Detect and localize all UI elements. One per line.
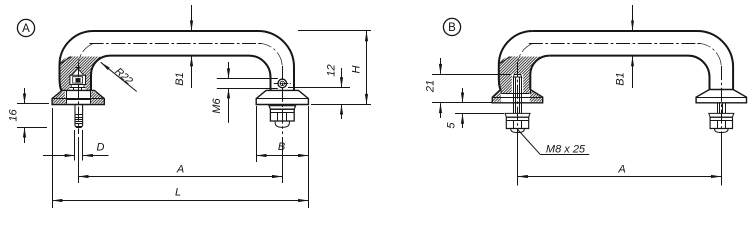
svg-text:A: A	[176, 163, 184, 175]
svg-text:M6: M6	[211, 97, 223, 113]
svg-text:A: A	[617, 163, 625, 175]
washer under right foot	[269, 106, 296, 110]
centerline left foot B	[517, 63, 519, 140]
right foot centerline	[282, 66, 284, 134]
svg-text:B: B	[278, 141, 285, 153]
left foot cone outline	[52, 90, 104, 104]
svg-text:21: 21	[425, 80, 437, 93]
dim 12 right	[288, 87, 350, 89]
stud end dome under right nut	[275, 121, 289, 127]
washer under nut left leg	[71, 85, 84, 88]
stud apex above nut left leg	[72, 69, 84, 76]
dim H right	[298, 30, 371, 32]
svg-text:B1: B1	[615, 72, 627, 85]
hex nut inside left leg	[70, 75, 86, 84]
right foot B cone	[696, 90, 746, 103]
circled letter A label	[17, 19, 34, 36]
left leg cavity white (nut+washer+apex)	[70, 75, 86, 90]
handle A tube outline	[94, 31, 295, 90]
dim B below right foot	[256, 106, 258, 162]
right foot cone outline	[256, 90, 308, 104]
svg-text:12: 12	[326, 64, 338, 76]
label M8 x 25 with leader	[540, 154, 589, 156]
handle B tube outline	[533, 31, 733, 90]
hex nut under right foot	[270, 109, 294, 121]
svg-text:M8 x 25: M8 x 25	[546, 144, 586, 156]
dim A (variant A)	[78, 137, 80, 183]
svg-text:B1: B1	[174, 72, 186, 85]
dim 16 left	[17, 103, 49, 105]
left foot B hatch wings	[492, 90, 501, 102]
left foot inner lines	[66, 90, 68, 103]
svg-text:L: L	[175, 187, 181, 199]
dim B1 arrow line	[191, 5, 193, 30]
circled letter B label	[443, 18, 460, 35]
svg-text:H: H	[351, 65, 363, 73]
svg-text:B: B	[448, 22, 456, 34]
nut stack right foot B	[717, 103, 719, 114]
svg-text:A: A	[22, 23, 30, 35]
left foot B cone	[492, 90, 542, 103]
section hatch left leg B	[499, 56, 547, 93]
dim D below left stud	[74, 130, 76, 161]
dim M6 with extension lines	[217, 78, 278, 80]
threaded stud below left foot	[75, 105, 83, 114]
dim R22 leader	[101, 62, 137, 91]
nut stack left foot B	[513, 103, 515, 114]
svg-text:16: 16	[8, 109, 20, 122]
tube centerline B	[529, 43, 701, 45]
stud shaft in left leg	[73, 87, 75, 90]
cross hole circle on right leg	[278, 79, 287, 88]
threaded stud M8 inside left leg B	[513, 75, 522, 78]
dim 5 variant B	[455, 113, 504, 115]
dim B1 variant B	[632, 5, 634, 30]
dim L (variant A)	[52, 108, 54, 208]
left foot centerline	[78, 63, 80, 134]
cavity for stud left leg B (white)	[512, 74, 523, 103]
section hatch left leg A	[60, 56, 108, 90]
centerline right foot B	[721, 66, 723, 140]
svg-text:5: 5	[446, 122, 458, 129]
left foot hatch wings	[52, 90, 66, 103]
tube centerline A	[90, 43, 263, 45]
tube end face line in left foot B	[501, 93, 529, 95]
dim 21 variant B	[432, 74, 511, 76]
dim A (variant B)	[517, 135, 519, 186]
svg-text:D: D	[97, 142, 105, 154]
